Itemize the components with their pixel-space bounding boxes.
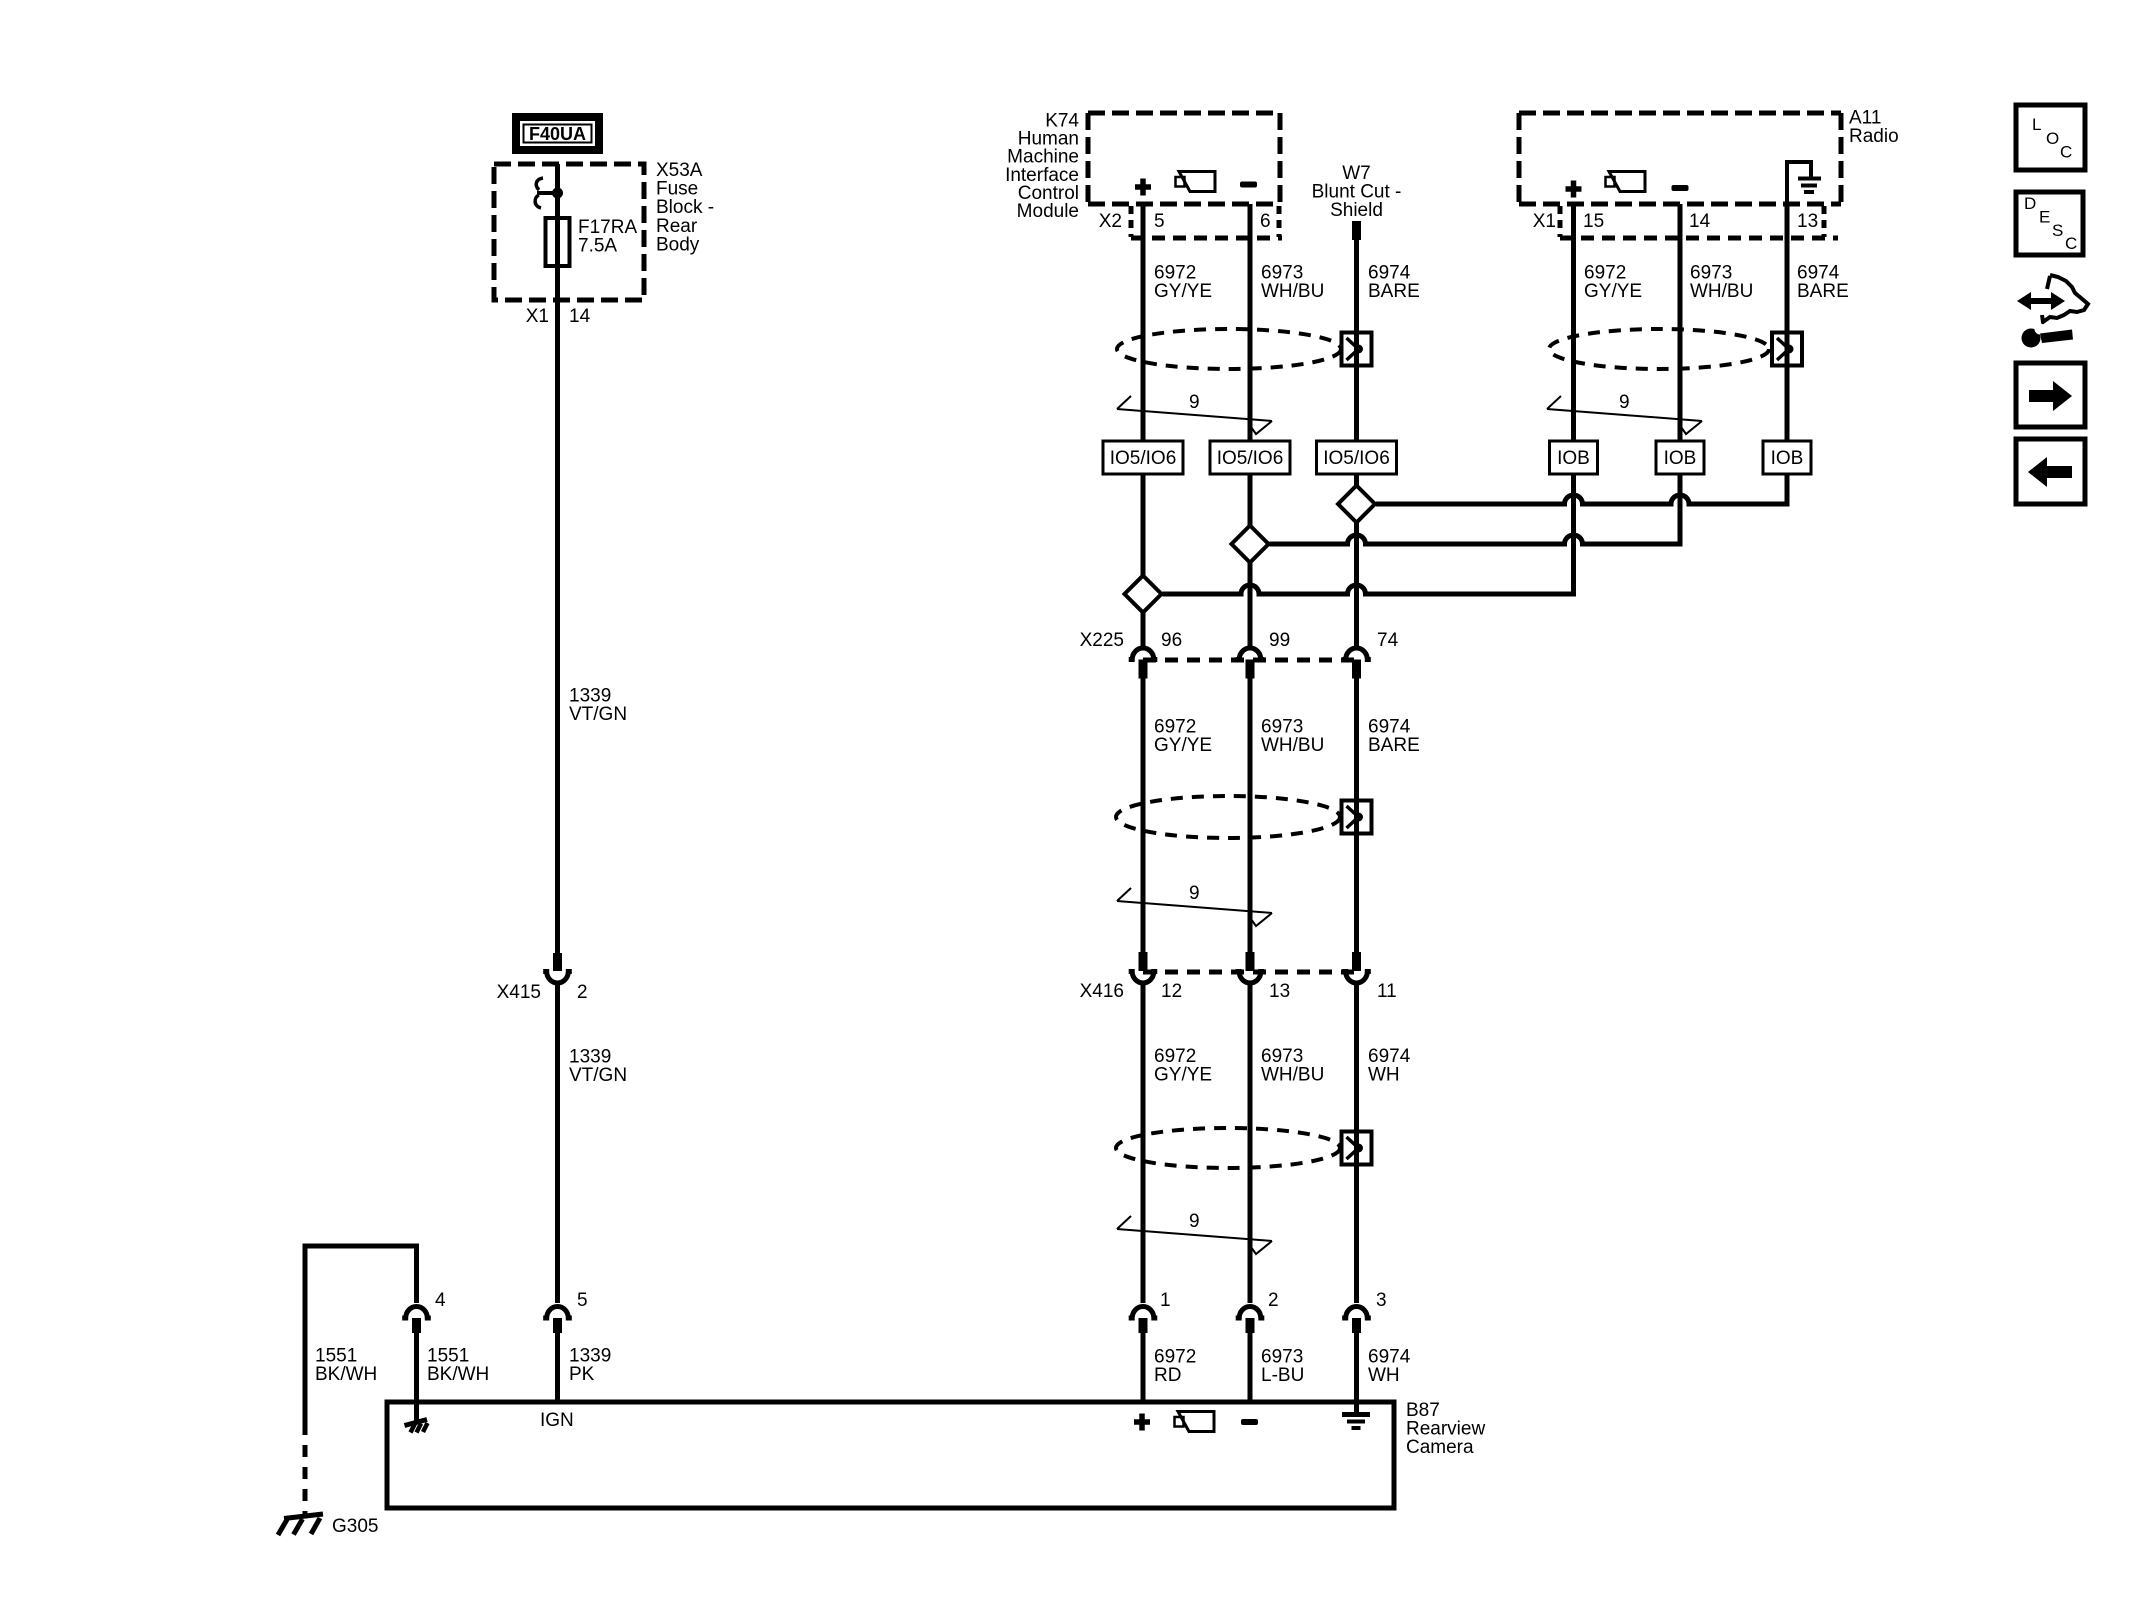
svg-text:PK: PK — [569, 1364, 595, 1385]
svg-text:Radio: Radio — [1849, 126, 1899, 147]
svg-text:IO5/IO6: IO5/IO6 — [1323, 448, 1390, 469]
svg-text:X225: X225 — [1080, 630, 1124, 651]
svg-text:14: 14 — [1689, 211, 1711, 232]
svg-text:13: 13 — [1797, 211, 1818, 232]
svg-text:14: 14 — [569, 306, 591, 327]
svg-text:IGN: IGN — [540, 1410, 574, 1431]
svg-text:3: 3 — [1376, 1290, 1387, 1311]
svg-text:IOB: IOB — [1557, 448, 1590, 469]
svg-text:O: O — [2046, 129, 2059, 148]
svg-text:15: 15 — [1583, 211, 1604, 232]
svg-text:IOB: IOB — [1664, 448, 1697, 469]
svg-text:6: 6 — [1260, 211, 1271, 232]
svg-text:F40UA: F40UA — [529, 124, 586, 144]
svg-text:9: 9 — [1189, 1211, 1200, 1232]
svg-text:GY/YE: GY/YE — [1584, 281, 1642, 302]
svg-text:Module: Module — [1017, 201, 1079, 222]
svg-text:2: 2 — [577, 982, 588, 1003]
svg-text:9: 9 — [1189, 883, 1200, 904]
svg-text:9: 9 — [1189, 392, 1200, 413]
svg-text:X1: X1 — [1533, 211, 1556, 232]
svg-text:11: 11 — [1377, 981, 1397, 1002]
svg-text:1: 1 — [1160, 1290, 1171, 1311]
svg-text:BK/WH: BK/WH — [427, 1364, 489, 1385]
svg-text:Body: Body — [656, 234, 700, 255]
svg-text:RD: RD — [1154, 1365, 1181, 1386]
svg-text:2: 2 — [1268, 1290, 1279, 1311]
svg-text:L-BU: L-BU — [1261, 1365, 1304, 1386]
svg-text:S: S — [2052, 221, 2063, 240]
svg-text:Shield: Shield — [1330, 200, 1383, 221]
svg-text:WH/BU: WH/BU — [1261, 735, 1324, 756]
svg-text:BARE: BARE — [1368, 735, 1420, 756]
svg-text:9: 9 — [1619, 392, 1630, 413]
svg-text:C: C — [2065, 234, 2077, 253]
svg-text:GY/YE: GY/YE — [1154, 1065, 1212, 1086]
svg-text:96: 96 — [1161, 630, 1182, 651]
svg-text:X416: X416 — [1080, 981, 1124, 1002]
svg-text:D: D — [2024, 194, 2036, 213]
svg-text:X415: X415 — [497, 982, 541, 1003]
svg-text:Camera: Camera — [1406, 1437, 1474, 1458]
svg-text:12: 12 — [1161, 981, 1182, 1002]
svg-text:74: 74 — [1377, 630, 1399, 651]
svg-text:E: E — [2039, 208, 2050, 227]
svg-text:WH/BU: WH/BU — [1690, 281, 1753, 302]
svg-text:GY/YE: GY/YE — [1154, 735, 1212, 756]
svg-text:99: 99 — [1269, 630, 1290, 651]
svg-text:5: 5 — [1154, 211, 1165, 232]
svg-text:4: 4 — [435, 1290, 446, 1311]
svg-text:7.5A: 7.5A — [578, 236, 617, 257]
svg-text:IO5/IO6: IO5/IO6 — [1217, 448, 1284, 469]
svg-text:IO5/IO6: IO5/IO6 — [1110, 448, 1177, 469]
svg-text:X1: X1 — [526, 306, 549, 327]
svg-text:5: 5 — [577, 1290, 588, 1311]
svg-text:VT/GN: VT/GN — [569, 704, 627, 725]
svg-text:WH: WH — [1368, 1065, 1400, 1086]
svg-text:IOB: IOB — [1771, 448, 1804, 469]
svg-text:G305: G305 — [332, 1516, 378, 1537]
svg-text:C: C — [2060, 143, 2072, 162]
svg-text:WH/BU: WH/BU — [1261, 281, 1324, 302]
svg-text:BARE: BARE — [1797, 281, 1849, 302]
svg-text:WH: WH — [1368, 1365, 1400, 1386]
svg-text:VT/GN: VT/GN — [569, 1065, 627, 1086]
svg-text:WH/BU: WH/BU — [1261, 1065, 1324, 1086]
svg-text:13: 13 — [1269, 981, 1290, 1002]
svg-text:L: L — [2032, 115, 2041, 134]
svg-text:BK/WH: BK/WH — [315, 1364, 377, 1385]
svg-text:X2: X2 — [1099, 211, 1122, 232]
svg-text:GY/YE: GY/YE — [1154, 281, 1212, 302]
svg-text:BARE: BARE — [1368, 281, 1420, 302]
